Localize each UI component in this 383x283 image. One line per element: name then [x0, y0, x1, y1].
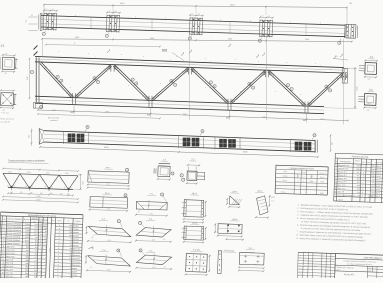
- svg-text:4: 4: [3, 233, 4, 235]
- svg-text:1.9: 1.9: [34, 260, 37, 262]
- svg-text:ø: ø: [290, 22, 291, 24]
- svg-text:4: 4: [58, 254, 59, 256]
- vertical dim at band3 right end: [330, 135, 332, 152]
- svg-text:6: 6: [41, 247, 42, 249]
- svg-text:250: 250: [25, 266, 28, 268]
- witness stubs at clusters: [112, 5, 114, 13]
- svg-text:54: 54: [40, 231, 42, 233]
- title block signature grid: [296, 252, 299, 281]
- svg-text:220: 220: [25, 270, 28, 272]
- svg-text:4: 4: [297, 181, 298, 183]
- svg-text:54.1: 54.1: [357, 172, 360, 174]
- balloon below cluster: [108, 33, 110, 35]
- svg-text:45: 45: [7, 185, 9, 187]
- detail 4 bottom chord piece: [89, 191, 129, 211]
- svg-text:16: 16: [1, 272, 3, 274]
- svg-text:45: 45: [31, 186, 33, 188]
- svg-text:Кол: Кол: [362, 162, 365, 164]
- top chord plan member: [41, 16, 345, 26]
- dimension line above elevation: [42, 39, 352, 42]
- svg-text:5: 5: [335, 178, 336, 180]
- svg-text:37.2: 37.2: [357, 179, 360, 181]
- svg-text:18000: 18000: [36, 200, 41, 202]
- svg-text:2: 2: [70, 271, 71, 273]
- svg-text:8: 8: [335, 188, 336, 190]
- svg-text:4210: 4210: [107, 240, 111, 242]
- witness vertical at right end: [343, 39, 345, 125]
- balloon below cluster: [261, 38, 263, 40]
- svg-text:45°: 45°: [91, 237, 94, 239]
- svg-text:37: 37: [40, 241, 42, 243]
- svg-text:5: 5: [3, 236, 4, 238]
- svg-text:74: 74: [70, 238, 72, 240]
- gusset splice cluster at x=196: [189, 13, 204, 35]
- svg-text:3: 3: [45, 254, 46, 256]
- svg-text:2: 2: [58, 245, 59, 247]
- svg-text:460: 460: [26, 250, 29, 252]
- svg-text:4: 4: [58, 261, 59, 263]
- scheme bottom chord line: [8, 188, 73, 190]
- svg-text:1: 1: [43, 34, 44, 36]
- svg-text:45: 45: [13, 185, 15, 187]
- svg-text:4460: 4460: [107, 208, 111, 210]
- svg-text:ВСт3: ВСт3: [376, 176, 380, 178]
- svg-text:2540: 2540: [320, 181, 324, 183]
- svg-text:37: 37: [40, 237, 42, 239]
- svg-text:4210: 4210: [25, 237, 29, 239]
- svg-text:прокл.: прокл.: [72, 268, 78, 270]
- svg-text:3: 3: [126, 169, 127, 171]
- detail 18 plate with bolt holes: [214, 218, 244, 240]
- svg-text:490: 490: [69, 225, 72, 227]
- section 4-4 bolted plate: [185, 249, 211, 276]
- svg-text:1920: 1920: [27, 76, 29, 80]
- svg-text:15.3: 15.3: [357, 189, 360, 191]
- witness line left: [43, 5, 45, 16]
- svg-text:26.8: 26.8: [357, 185, 360, 187]
- detail 7 diagonal left gusset: [85, 218, 132, 243]
- svg-text:Масса, кг: Масса, кг: [319, 173, 326, 175]
- svg-text:8: 8: [214, 86, 215, 88]
- svg-text:60: 60: [191, 13, 193, 15]
- svg-text:ВСт3: ВСт3: [376, 183, 380, 185]
- svg-text:3460: 3460: [152, 267, 156, 269]
- svg-text:16: 16: [69, 252, 71, 254]
- specification table: [0, 212, 83, 281]
- splice pack at x=191: [183, 138, 191, 147]
- svg-text:фасонка: фасонка: [73, 247, 82, 250]
- svg-text:7: 7: [3, 243, 4, 245]
- svg-text:245: 245: [35, 179, 38, 181]
- svg-text:Лист t=6: Лист t=6: [5, 275, 12, 278]
- witness vertical at node 2: [189, 34, 191, 120]
- scheme dim line 2: [3, 197, 78, 200]
- scheme dim line 3: [3, 200, 78, 203]
- svg-text:5390: 5390: [320, 193, 324, 195]
- technical notes: [296, 204, 373, 243]
- svg-text:50: 50: [336, 56, 338, 58]
- diagonal up to top node 3: [153, 69, 190, 101]
- svg-text:238.4: 238.4: [371, 169, 375, 171]
- scheme top chord line: [3, 173, 78, 176]
- svg-text:60: 60: [108, 11, 110, 13]
- svg-text:4460: 4460: [25, 230, 29, 232]
- bottom node gussets and stubs: [72, 93, 74, 105]
- svg-text:4460: 4460: [228, 38, 232, 40]
- svg-text:45: 45: [51, 187, 53, 189]
- svg-text:ВСт3: ВСт3: [376, 186, 380, 188]
- svg-text:2: 2: [40, 260, 41, 262]
- svg-text:45°: 45°: [164, 266, 167, 268]
- svg-text:3: 3: [41, 254, 42, 256]
- svg-text:Лист t=8: Лист t=8: [5, 265, 12, 268]
- svg-text:9: 9: [140, 250, 141, 252]
- top node gussets: [110, 64, 112, 72]
- section cut ticks at left end: [34, 46, 38, 50]
- svg-text:ФТ1-1: ФТ1-1: [283, 179, 288, 182]
- svg-text:24.5: 24.5: [34, 227, 38, 229]
- svg-text:5: 5: [162, 194, 163, 196]
- svg-text:450: 450: [10, 192, 13, 194]
- svg-text:24: 24: [70, 248, 72, 250]
- detail 1 top chord piece: [87, 166, 131, 190]
- gusset splice cluster at x=113: [106, 11, 121, 33]
- svg-text:6: 6: [175, 85, 176, 87]
- svg-text:раскос: раскос: [73, 239, 79, 241]
- svg-text:прокл.: прокл.: [72, 271, 78, 273]
- scheme diagonals: [3, 173, 12, 187]
- svg-text:Всего: Всего: [281, 191, 286, 193]
- left edge section view bottom with cross: [0, 89, 17, 114]
- svg-text:8: 8: [3, 246, 4, 248]
- svg-text:2850: 2850: [310, 181, 314, 183]
- detail 15 skewed gusset plate: [254, 190, 275, 218]
- svg-text:245.2: 245.2: [356, 165, 360, 167]
- svg-text:7: 7: [210, 82, 211, 84]
- svg-text:180: 180: [5, 53, 8, 55]
- svg-text:74.4: 74.4: [372, 179, 375, 181]
- svg-text:2: 2: [59, 235, 60, 237]
- svg-text:ø: ø: [250, 20, 251, 22]
- svg-text:ВСт3: ВСт3: [376, 189, 380, 191]
- svg-text:Масса: Масса: [32, 218, 37, 220]
- svg-text:2: 2: [40, 264, 41, 266]
- svg-text:11: 11: [202, 131, 204, 133]
- svg-text:45°: 45°: [163, 239, 166, 241]
- diagonal down from top node 3: [191, 69, 228, 104]
- svg-text:Лист t=8: Лист t=8: [6, 258, 13, 261]
- svg-text:45: 45: [70, 187, 72, 189]
- svg-text:6.4: 6.4: [35, 244, 38, 246]
- svg-text:5.9: 5.9: [35, 247, 38, 249]
- svg-text:Масса: Масса: [355, 160, 360, 162]
- witness vertical at node 3: [266, 37, 268, 121]
- svg-text:ø: ø: [220, 19, 221, 21]
- balloon at left end: [30, 70, 33, 73]
- right end gusset of elevation: [342, 69, 347, 84]
- svg-text:6: 6: [45, 247, 46, 249]
- svg-text:6: 6: [335, 181, 336, 183]
- dim marks left of band1 end: [29, 16, 38, 18]
- svg-text:Ферма ФТ1: Ферма ФТ1: [344, 273, 356, 276]
- svg-text:245.2: 245.2: [371, 166, 375, 168]
- svg-text:Лист 1-10: Лист 1-10: [337, 188, 345, 190]
- svg-text:Монтажный: Монтажный: [48, 117, 59, 120]
- svg-text:37: 37: [45, 238, 47, 240]
- svg-text:74: 74: [70, 242, 72, 244]
- svg-text:Длина: Длина: [24, 219, 31, 221]
- svg-text:фасонка: фасонка: [72, 261, 81, 264]
- svg-text:12.1: 12.1: [34, 231, 38, 233]
- svg-text:300: 300: [25, 260, 28, 262]
- svg-text:Примеч.: Примеч.: [75, 221, 82, 223]
- svg-text:8: 8: [335, 191, 336, 193]
- svg-text:Р мм: Р мм: [302, 172, 306, 174]
- svg-text:Геометрическая схема полуфермы: Геометрическая схема полуфермы: [8, 159, 45, 162]
- svg-text:3: 3: [40, 257, 41, 259]
- element list table: [334, 153, 383, 203]
- bottom chord plan member: [44, 131, 315, 141]
- svg-text:Изм: Изм: [299, 265, 302, 267]
- svg-text:10: 10: [40, 107, 42, 109]
- svg-text:11: 11: [2, 256, 4, 258]
- svg-text:17: 17: [1, 276, 3, 278]
- second partial dim line: [38, 114, 160, 118]
- balloon below left support: [39, 105, 42, 108]
- svg-text:Резка по месту: Резка по месту: [1, 119, 14, 121]
- left end plate: [40, 14, 42, 31]
- svg-text:4: 4: [362, 189, 363, 191]
- svg-text:фасонка: фасонка: [72, 254, 81, 257]
- svg-text:3080: 3080: [262, 117, 266, 119]
- svg-text:108.2: 108.2: [371, 176, 375, 178]
- svg-text:1: 1: [45, 270, 46, 272]
- svg-text:802: 802: [71, 112, 74, 114]
- svg-text:1.3: 1.3: [34, 267, 37, 269]
- svg-text:Лист t=6: Лист t=6: [5, 271, 12, 274]
- bottom chord light extension: [324, 107, 344, 110]
- member segment seams: [90, 17, 92, 28]
- diagonal down from top node 2: [113, 66, 148, 101]
- svg-text:11250: 11250: [25, 227, 30, 229]
- svg-text:125: 125: [26, 20, 28, 23]
- svg-text:2: 2: [363, 172, 364, 174]
- svg-text:2: 2: [363, 179, 364, 181]
- svg-text:2: 2: [58, 241, 59, 243]
- svg-text:5: 5: [253, 87, 254, 89]
- splice pack at x=303: [295, 142, 303, 151]
- dimension string below elevation: [38, 110, 348, 121]
- svg-text:245: 245: [5, 178, 8, 180]
- scheme upper dim line: [3, 169, 78, 172]
- svg-text:4460: 4460: [106, 184, 110, 186]
- svg-text:54: 54: [45, 231, 47, 233]
- svg-text:1720: 1720: [320, 119, 324, 121]
- svg-text:Разраб: Разраб: [298, 268, 303, 270]
- svg-text:Лист 1-12: Лист 1-12: [337, 185, 345, 187]
- svg-text:4: 4: [362, 192, 363, 194]
- svg-text:245: 245: [61, 180, 64, 182]
- svg-text:2: 2: [57, 268, 58, 270]
- svg-text:45: 45: [64, 187, 66, 189]
- scheme right vertical dim: [80, 174, 82, 190]
- svg-text:ВСт3: ВСт3: [377, 166, 381, 168]
- svg-text:2: 2: [59, 231, 60, 233]
- svg-text:1005: 1005: [82, 181, 84, 185]
- detail 10 diagonal big gusset: [85, 246, 132, 272]
- small dims above cluster: [260, 16, 273, 18]
- witness vertical left: [42, 39, 44, 57]
- svg-text:245: 245: [73, 181, 76, 183]
- svg-text:см. узел A: см. узел A: [1, 121, 11, 124]
- svg-text:Раскос Р-4: Раскос Р-4: [338, 181, 347, 183]
- balloon below cluster: [191, 36, 193, 38]
- svg-text:1: 1: [44, 274, 45, 276]
- svg-text:180: 180: [2, 110, 5, 112]
- svg-text:11250: 11250: [25, 224, 30, 226]
- svg-text:245: 245: [54, 180, 57, 182]
- svg-text:3080: 3080: [183, 114, 187, 116]
- svg-text:45: 45: [25, 186, 27, 188]
- svg-text:6: 6: [330, 90, 331, 92]
- right vertical dimension 1005: [354, 68, 356, 109]
- svg-text:450: 450: [20, 192, 23, 194]
- svg-text:45: 45: [45, 187, 47, 189]
- svg-text:3: 3: [339, 43, 340, 45]
- svg-text:280: 280: [25, 263, 28, 265]
- svg-text:Всего: Всего: [367, 162, 371, 164]
- svg-text:238.4: 238.4: [356, 169, 360, 171]
- svg-text:Кол.: Кол.: [52, 220, 56, 222]
- svg-text:120: 120: [29, 135, 31, 138]
- svg-text:3080: 3080: [105, 112, 109, 114]
- svg-text:11: 11: [87, 127, 89, 129]
- detail 5 diagonal with gusset: [135, 192, 168, 216]
- svg-text:1: 1: [4, 223, 5, 225]
- svg-text:1: 1: [40, 270, 41, 272]
- witness line right: [346, 8, 348, 25]
- svg-text:245: 245: [22, 179, 25, 181]
- small dims above right end: [334, 59, 348, 61]
- svg-text:3: 3: [125, 195, 126, 197]
- svg-text:4: 4: [41, 251, 42, 253]
- svg-text:КМД: КМД: [368, 270, 371, 272]
- svg-text:2: 2: [363, 176, 364, 178]
- svg-text:8: 8: [70, 265, 71, 267]
- svg-text:802: 802: [162, 49, 168, 53]
- svg-text:9: 9: [132, 79, 133, 81]
- svg-text:4210: 4210: [149, 213, 153, 215]
- svg-text:7: 7: [335, 184, 336, 186]
- svg-text:6: 6: [61, 80, 62, 82]
- svg-text:7: 7: [140, 223, 141, 225]
- svg-text:ø: ø: [320, 23, 321, 25]
- svg-text:240: 240: [367, 110, 370, 112]
- left vertical dim between chords: [29, 58, 31, 99]
- svg-text:120: 120: [331, 142, 333, 145]
- svg-text:40: 40: [31, 15, 33, 17]
- svg-text:7: 7: [291, 89, 292, 91]
- detail 21 plate with bolts: [238, 246, 265, 272]
- svg-text:12: 12: [69, 258, 71, 260]
- svg-text:4210: 4210: [25, 240, 29, 242]
- svg-text:27: 27: [40, 244, 42, 246]
- svg-text:Лист t=12: Лист t=12: [6, 248, 14, 251]
- svg-text:Подп: Подп: [322, 266, 326, 268]
- svg-text:200: 200: [25, 273, 28, 275]
- svg-text:3: 3: [3, 230, 4, 232]
- right end bracket: [314, 140, 316, 153]
- svg-text:2: 2: [59, 228, 60, 230]
- svg-text:2250: 2250: [65, 173, 69, 175]
- diagonal up to top node 4: [232, 72, 267, 104]
- svg-text:Раскос Р-3: Раскос Р-3: [338, 178, 347, 180]
- gusset splice cluster at x=50: [43, 9, 58, 31]
- svg-text:802: 802: [147, 115, 150, 117]
- svg-text:33.6: 33.6: [371, 192, 374, 194]
- svg-text:8.8: 8.8: [35, 237, 38, 239]
- scheme bottom node stubs: [11, 188, 13, 190]
- svg-text:Лист t=8: Лист t=8: [6, 261, 13, 264]
- svg-text:15: 15: [2, 269, 4, 271]
- balloons on diagonals: [56, 75, 59, 78]
- diagonal up to top node 5: [309, 75, 344, 107]
- detail C2 wide splice plate 2: [181, 222, 207, 243]
- svg-text:4460: 4460: [25, 234, 29, 236]
- svg-text:5: 5: [326, 86, 327, 88]
- svg-text:10: 10: [2, 253, 4, 255]
- svg-text:ø: ø: [135, 17, 136, 19]
- svg-text:3: 3: [183, 179, 184, 181]
- svg-text:245: 245: [16, 179, 19, 181]
- svg-text:4: 4: [58, 258, 59, 260]
- svg-text:60: 60: [268, 16, 270, 18]
- svg-text:раскос: раскос: [73, 242, 79, 244]
- svg-text:54: 54: [45, 234, 47, 236]
- small dims above cluster: [44, 9, 57, 11]
- svg-text:802: 802: [226, 117, 229, 119]
- weld flags near nodes: [181, 52, 183, 55]
- svg-text:Этап: Этап: [283, 171, 287, 173]
- svg-text:6: 6: [118, 221, 119, 223]
- svg-text:2440: 2440: [305, 39, 309, 41]
- svg-text:8: 8: [118, 250, 119, 252]
- svg-text:45°: 45°: [90, 267, 93, 269]
- section 2-2 box detail: [180, 159, 205, 185]
- svg-text:фасонка: фасонка: [72, 251, 81, 254]
- left support bracket: [34, 103, 43, 109]
- svg-text:9: 9: [249, 84, 250, 86]
- diagonal up to top node 2: [76, 66, 112, 98]
- svg-text:Лист t=10: Лист t=10: [6, 255, 14, 258]
- svg-text:245: 245: [42, 180, 45, 182]
- svg-text:2.7: 2.7: [35, 257, 38, 259]
- section 1-1 box detail: [154, 159, 175, 180]
- svg-text:53.6: 53.6: [372, 186, 375, 188]
- svg-text:Всего: Всего: [57, 220, 62, 222]
- svg-text:4 отв. ø23: 4 отв. ø23: [1, 112, 9, 114]
- svg-text:2250: 2250: [27, 172, 31, 174]
- svg-text:Наименование: Наименование: [340, 161, 351, 163]
- svg-text:1: 1: [45, 267, 46, 269]
- svg-text:4: 4: [45, 251, 46, 253]
- svg-text:2: 2: [70, 268, 71, 270]
- svg-text:2: 2: [57, 271, 58, 273]
- svg-text:8: 8: [70, 261, 71, 263]
- svg-text:8.8: 8.8: [35, 241, 38, 243]
- right end assembly plan: [345, 24, 358, 38]
- balloon below cluster: [45, 31, 47, 33]
